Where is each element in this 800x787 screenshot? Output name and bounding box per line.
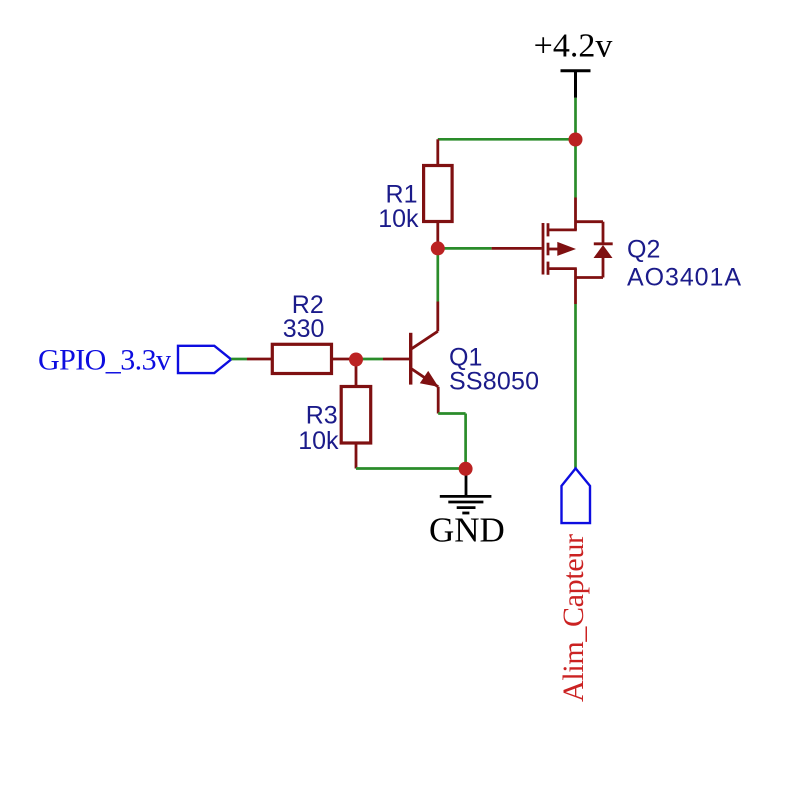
svg-text:GND: GND [429,510,505,549]
svg-text:10k: 10k [298,427,339,455]
wire: emitter to gnd column horizontal [438,412,465,415]
body diode of Q2 [576,222,613,278]
resistor R1 [424,139,453,248]
wire: gate node horizontal [438,247,492,250]
transistor Q1 NPN [383,302,438,414]
svg-text:330: 330 [283,315,325,343]
resistor R2 [247,344,356,373]
svg-text:GPIO_3.3v: GPIO_3.3v [38,343,171,376]
wire: top horizontal R1 to Q2 column [438,138,576,141]
svg-text:R3: R3 [306,402,338,430]
arrow of Q2 [557,242,576,256]
ground [440,469,492,513]
svg-text:Alim_Capteur: Alim_Capteur [557,534,590,702]
svg-text:+4.2v: +4.2v [534,28,613,65]
wire: collector to gate node vertical [436,248,439,301]
svg-text:AO3401A: AO3401A [627,264,741,292]
power symbol +4.2v [561,71,591,98]
junction at R2 / R3 / Q1 base node [349,353,363,367]
emitter arrow of Q1 [420,371,439,387]
resistor R3 [341,360,371,469]
wire: base node horizontal [356,358,383,361]
diode triangle of Q2 [594,245,613,258]
svg-text:Q2: Q2 [627,236,660,264]
junction at R1 bottom / Q2 gate node [431,241,445,255]
svg-text:10k: 10k [378,205,419,233]
wire: GPIO flag to R2 [231,358,247,361]
global label Alim_Capteur flag [562,468,591,523]
flag of GPIO_3.3v [178,346,231,373]
svg-text:SS8050: SS8050 [449,367,539,395]
junction top at +4.2v node [569,133,583,147]
wire: power to top junction [574,98,577,140]
wire: R3 bottom to gnd junction [356,467,466,470]
transistor Q2 P-MOSFET [492,198,577,305]
wire: Q2 source down to Alim_Capteur [574,304,577,468]
wire: gnd column vertical [464,414,467,469]
wire: junction down to Q2 drain [574,140,577,198]
junction at GND node [459,462,473,476]
